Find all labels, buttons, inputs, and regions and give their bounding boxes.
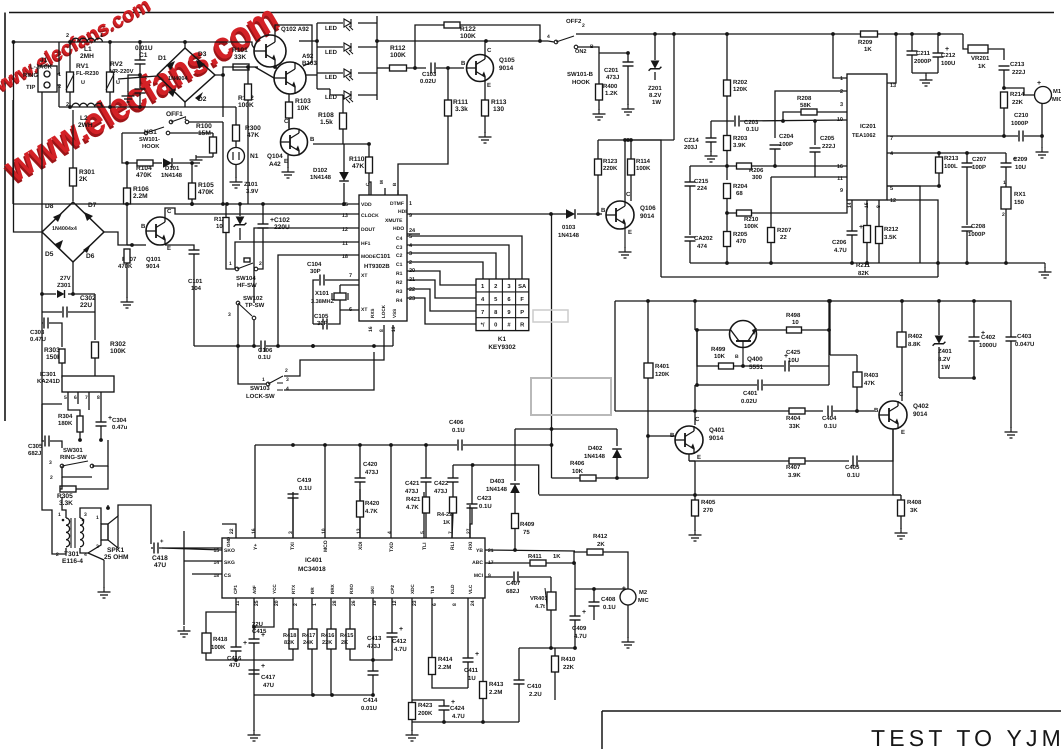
- resistor R419 2K: [346, 629, 355, 649]
- svg-text:R213: R213: [944, 155, 959, 162]
- svg-text:R407: R407: [786, 464, 801, 471]
- wire row R4: [407, 298, 476, 324]
- svg-text:SW301: SW301: [63, 447, 83, 454]
- svg-text:C410: C410: [527, 683, 542, 690]
- wire HF1 line: [235, 242, 359, 269]
- svg-text:682J: 682J: [28, 450, 41, 457]
- svg-text:2: 2: [409, 260, 412, 266]
- svg-text:4: 4: [286, 386, 289, 392]
- svg-text:11: 11: [342, 241, 348, 247]
- wire Q103 to LED rail: [306, 74, 317, 76]
- svg-text:C404: C404: [822, 415, 837, 422]
- svg-text:Z401: Z401: [938, 348, 952, 355]
- svg-text:4: 4: [547, 34, 550, 40]
- svg-text:7: 7: [448, 531, 454, 534]
- svg-text:DOUT: DOUT: [361, 227, 375, 233]
- connector J1 L-JACK: [38, 66, 57, 92]
- svg-text:4.7t: 4.7t: [535, 604, 545, 610]
- svg-text:C423: C423: [477, 495, 492, 502]
- svg-text:Z301: Z301: [57, 282, 71, 289]
- svg-text:4.7U: 4.7U: [834, 247, 847, 254]
- svg-text:K1: K1: [498, 336, 507, 343]
- svg-text:6: 6: [432, 603, 438, 606]
- ground under R423: [411, 730, 413, 735]
- svg-text:R105: R105: [198, 182, 214, 189]
- svg-text:2: 2: [285, 368, 288, 374]
- svg-text:3K: 3K: [910, 507, 918, 514]
- svg-text:11: 11: [837, 176, 843, 182]
- ground under R107: [126, 297, 128, 302]
- resistor R403 47K: [853, 372, 862, 387]
- svg-text:R205: R205: [733, 231, 748, 238]
- svg-text:1: 1: [96, 515, 99, 521]
- ground under C211/C212: [912, 72, 938, 74]
- ground under R100: [195, 155, 197, 160]
- svg-text:2: 2: [494, 283, 497, 290]
- capacitor C2: [135, 88, 146, 90]
- svg-text:R209: R209: [858, 39, 873, 46]
- svg-text:C101: C101: [188, 278, 203, 285]
- svg-text:C: C: [167, 208, 172, 215]
- wire rail x615: [614, 301, 616, 411]
- svg-text:C203: C203: [744, 119, 759, 126]
- wire col C4: [407, 236, 522, 279]
- svg-text:R412: R412: [593, 533, 608, 540]
- svg-text:47K: 47K: [864, 380, 876, 387]
- wire OFF1 down to VDD rail: [222, 122, 224, 204]
- svg-text:CLOCK: CLOCK: [361, 213, 379, 219]
- svg-text:0.47u: 0.47u: [112, 424, 128, 431]
- svg-text:23: 23: [409, 296, 415, 302]
- transistor Q400 5551: [730, 321, 757, 348]
- svg-text:HF1: HF1: [361, 241, 371, 247]
- ground under Q104: [287, 167, 289, 172]
- svg-text:C418: C418: [152, 555, 168, 562]
- svg-text:100P: 100P: [972, 164, 986, 171]
- svg-text:HOOK: HOOK: [572, 79, 591, 86]
- svg-text:3: 3: [286, 377, 289, 383]
- wire Q101 collector to CLOCK: [165, 208, 359, 217]
- svg-text:1K: 1K: [443, 520, 450, 526]
- svg-text:C425: C425: [786, 349, 801, 356]
- svg-text:5: 5: [64, 395, 67, 401]
- svg-text:R303: R303: [44, 347, 60, 354]
- svg-text:5: 5: [420, 531, 426, 534]
- svg-text:CS: CS: [224, 573, 232, 579]
- resistor R418 100K: [202, 633, 211, 653]
- svg-text:C421: C421: [405, 480, 420, 487]
- wire Q102-Q103 link: [275, 25, 312, 66]
- svg-text:2K: 2K: [597, 541, 605, 548]
- svg-text:C211: C211: [916, 50, 931, 57]
- svg-text:25 OHM: 25 OHM: [104, 554, 129, 561]
- svg-text:3.9K: 3.9K: [788, 472, 801, 479]
- svg-text:R106: R106: [133, 186, 149, 193]
- microphone M1 MIC: [1035, 87, 1052, 104]
- svg-text:100K: 100K: [460, 33, 476, 40]
- svg-text:RV1: RV1: [76, 63, 89, 70]
- svg-text:F: F: [520, 297, 524, 303]
- svg-text:R207: R207: [777, 227, 792, 234]
- svg-text:R403: R403: [864, 372, 879, 379]
- svg-text:22: 22: [409, 287, 415, 293]
- svg-text:8.2V: 8.2V: [649, 92, 661, 99]
- svg-text:D402: D402: [588, 445, 603, 452]
- svg-text:1: 1: [312, 603, 318, 606]
- svg-text:SKG: SKG: [224, 560, 235, 566]
- border frame left line: [4, 13, 6, 422]
- wire bridge1 right to OFF1: [215, 75, 223, 117]
- svg-text:C104: C104: [307, 261, 322, 268]
- diode bridge D5-D8 1N4004x4: [42, 202, 104, 262]
- wire col C1: [407, 262, 483, 279]
- svg-text:R103: R103: [295, 98, 311, 105]
- svg-text:224: 224: [697, 185, 708, 192]
- svg-text:4.7U: 4.7U: [452, 713, 465, 720]
- svg-text:ON2: ON2: [575, 49, 587, 55]
- svg-text:473J: 473J: [367, 643, 380, 650]
- wire Q400 collector: [694, 301, 696, 330]
- svg-text:20: 20: [274, 600, 280, 606]
- svg-text:SKI: SKI: [370, 586, 375, 594]
- svg-text:0.01U: 0.01U: [135, 45, 153, 52]
- svg-text:2000P: 2000P: [914, 58, 931, 65]
- wire rail y695: [254, 694, 373, 696]
- svg-text:2.2M: 2.2M: [133, 193, 148, 200]
- svg-text:RING-SW: RING-SW: [60, 454, 87, 461]
- svg-text:100K: 100K: [238, 102, 254, 109]
- svg-text:3.9K: 3.9K: [733, 142, 746, 149]
- svg-text:47U: 47U: [263, 682, 274, 689]
- svg-text:R411: R411: [528, 554, 542, 560]
- svg-text:104: 104: [191, 285, 202, 292]
- svg-text:SA: SA: [518, 283, 527, 290]
- svg-text:10: 10: [792, 319, 799, 326]
- svg-text:+: +: [475, 651, 479, 658]
- svg-text:100K: 100K: [110, 348, 126, 355]
- svg-text:R212: R212: [884, 226, 899, 233]
- wire left vertical feeder: [14, 42, 43, 232]
- svg-text:N1: N1: [250, 153, 259, 160]
- svg-text:8.2V: 8.2V: [938, 356, 950, 363]
- wire pin13 to rail: [887, 34, 896, 83]
- svg-text:YCC: YCC: [272, 584, 277, 594]
- svg-text:8: 8: [452, 603, 458, 606]
- svg-text:2: 2: [50, 475, 53, 481]
- svg-text:R302: R302: [110, 341, 126, 348]
- svg-text:22K: 22K: [1012, 99, 1024, 106]
- svg-text:1K: 1K: [864, 46, 872, 53]
- svg-text:XMUTE: XMUTE: [385, 218, 403, 224]
- diode bridge D1-D4 1N4004x4: [157, 48, 215, 102]
- svg-text:47K: 47K: [247, 132, 259, 139]
- watermark www.elecfans.com large: [0, 0, 288, 194]
- svg-text:3.38MHZ: 3.38MHZ: [311, 299, 335, 305]
- svg-text:0.1U: 0.1U: [452, 427, 465, 434]
- inductor L1 2MH: [72, 38, 80, 42]
- svg-text:0.1U: 0.1U: [603, 604, 616, 611]
- svg-text:1: 1: [409, 201, 412, 207]
- wire bottom rail y722: [412, 721, 519, 723]
- svg-text:3: 3: [49, 460, 52, 466]
- svg-text:220K: 220K: [603, 165, 618, 172]
- svg-text:KEY9302: KEY9302: [488, 344, 516, 351]
- svg-text:LOCK-SW: LOCK-SW: [246, 393, 275, 400]
- svg-text:0.1U: 0.1U: [746, 126, 759, 133]
- svg-text:47U: 47U: [154, 562, 166, 569]
- svg-text:+: +: [160, 539, 164, 545]
- svg-text:19: 19: [391, 326, 397, 332]
- svg-text:KLD: KLD: [450, 584, 455, 594]
- ground under CZ14: [710, 151, 712, 156]
- svg-text:RV2: RV2: [110, 61, 123, 68]
- svg-text:R110: R110: [349, 156, 365, 163]
- svg-text:4.7U: 4.7U: [394, 646, 407, 653]
- wire J1 TIP down x42: [41, 92, 43, 294]
- ground under C1/C2 node: [127, 91, 129, 96]
- svg-text:2K: 2K: [79, 176, 88, 183]
- svg-text:C414: C414: [363, 697, 378, 704]
- node vertical x551: [551, 214, 553, 478]
- svg-text:2: 2: [259, 261, 262, 267]
- svg-text:C210: C210: [1014, 112, 1029, 119]
- svg-text:270: 270: [703, 507, 714, 514]
- svg-text:R3: R3: [396, 289, 403, 295]
- svg-text:8.8K: 8.8K: [908, 341, 921, 348]
- svg-text:RXO: RXO: [349, 584, 354, 594]
- svg-text:IC301: IC301: [40, 371, 57, 378]
- svg-text:1: 1: [58, 512, 61, 518]
- wire y648 node: [551, 647, 575, 649]
- svg-text:CZ14: CZ14: [684, 137, 699, 144]
- switch SW102 TP-SW: [236, 301, 240, 305]
- svg-text:33K: 33K: [234, 54, 246, 61]
- ground under N1: [235, 177, 237, 182]
- ground under R405: [694, 530, 696, 535]
- svg-text:D102: D102: [313, 167, 328, 174]
- resistor R415 82K: [289, 629, 298, 649]
- svg-text:0103: 0103: [562, 224, 576, 231]
- svg-text:3.3K: 3.3K: [59, 500, 73, 507]
- svg-text:9: 9: [840, 188, 843, 194]
- wire Q104 collector: [288, 118, 290, 129]
- svg-text:RLI: RLI: [450, 541, 456, 550]
- wire y465 link: [453, 465, 539, 495]
- svg-text:12: 12: [392, 600, 398, 606]
- svg-text:C413: C413: [367, 635, 382, 642]
- svg-text:100P: 100P: [779, 141, 793, 148]
- svg-text:1.5k: 1.5k: [320, 119, 333, 126]
- wire IC401 verticals up: [222, 524, 236, 538]
- svg-text:LOCK: LOCK: [381, 304, 386, 318]
- svg-text:8: 8: [97, 395, 100, 401]
- svg-text:C206: C206: [832, 239, 847, 246]
- svg-text:MC34018: MC34018: [298, 566, 326, 573]
- svg-text:24: 24: [470, 600, 476, 606]
- svg-text:470K: 470K: [136, 172, 152, 179]
- wire y140 link: [598, 139, 674, 141]
- svg-text:MODE: MODE: [361, 254, 377, 260]
- ground under T301: [103, 560, 105, 588]
- svg-text:C3: C3: [396, 245, 403, 251]
- svg-text:R123: R123: [603, 158, 618, 165]
- wire rail y495: [539, 494, 901, 496]
- svg-text:SW103: SW103: [250, 385, 270, 392]
- varistor RV2 VR-220V: [107, 72, 114, 92]
- svg-text:M: M: [379, 180, 384, 184]
- wire Q401 base: [648, 435, 675, 437]
- svg-text:*/: */: [481, 322, 485, 329]
- svg-text:27V: 27V: [60, 275, 71, 282]
- svg-text:0.047U: 0.047U: [1015, 341, 1034, 348]
- svg-text:X101: X101: [315, 290, 330, 297]
- svg-text:5: 5: [890, 186, 893, 192]
- svg-text:16: 16: [251, 528, 257, 534]
- svg-text:Q104: Q104: [267, 153, 283, 160]
- svg-text:22: 22: [780, 234, 787, 241]
- svg-text:TIP: TIP: [26, 84, 35, 91]
- svg-text:VR-220V: VR-220V: [110, 68, 134, 75]
- svg-text:1000P: 1000P: [1011, 120, 1028, 127]
- svg-text:2: 2: [582, 23, 585, 29]
- svg-text:C102: C102: [274, 217, 290, 224]
- svg-text:R408: R408: [907, 499, 922, 506]
- svg-text:1N4004: 1N4004: [168, 76, 188, 82]
- svg-text:E116-4: E116-4: [62, 558, 83, 565]
- svg-text:18: 18: [342, 254, 348, 260]
- svg-text:9014: 9014: [640, 213, 655, 220]
- svg-text:TEA1062: TEA1062: [852, 133, 876, 139]
- svg-text:R409: R409: [520, 521, 535, 528]
- svg-text:M2: M2: [639, 589, 647, 596]
- svg-text:R210: R210: [744, 216, 759, 223]
- svg-text:R4: R4: [396, 298, 403, 304]
- svg-text:C213: C213: [1010, 61, 1025, 68]
- svg-text:21: 21: [488, 548, 494, 554]
- svg-text:Z201: Z201: [648, 85, 662, 92]
- svg-text:E: E: [901, 429, 905, 436]
- svg-text:1N4148: 1N4148: [161, 172, 183, 179]
- svg-text:22U: 22U: [80, 302, 92, 309]
- wire x674 down: [673, 34, 675, 140]
- svg-text:4.7U: 4.7U: [574, 633, 587, 640]
- IC U401 MC34018: [222, 538, 485, 598]
- svg-text:1W: 1W: [941, 364, 950, 371]
- svg-text:6: 6: [349, 307, 352, 313]
- neon lamp N1: [228, 148, 245, 165]
- wire HDI line: [407, 213, 551, 215]
- svg-text:3.5K: 3.5K: [884, 234, 897, 241]
- svg-text:0.1U: 0.1U: [299, 485, 312, 492]
- svg-text:R204: R204: [733, 183, 748, 190]
- svg-text:100K: 100K: [390, 52, 406, 59]
- wire VDD pin15: [358, 203, 360, 205]
- svg-text:LED: LED: [325, 74, 338, 81]
- svg-text:OFF1: OFF1: [166, 111, 183, 118]
- ground under R408: [900, 528, 902, 533]
- svg-text:C: C: [695, 416, 700, 423]
- svg-text:15M: 15M: [198, 130, 211, 137]
- svg-text:100K: 100K: [211, 644, 226, 651]
- svg-text:R111: R111: [453, 99, 468, 106]
- svg-text:47U: 47U: [229, 662, 240, 669]
- svg-text:Q105: Q105: [499, 57, 515, 64]
- svg-text:MIC: MIC: [1052, 96, 1061, 103]
- svg-text:XDC: XDC: [410, 584, 415, 594]
- svg-text:TXD: TXD: [389, 542, 395, 552]
- svg-text:180K: 180K: [58, 420, 73, 427]
- wire MODE line: [278, 255, 359, 346]
- svg-text:5: 5: [409, 234, 412, 240]
- svg-text:2: 2: [1002, 212, 1005, 218]
- svg-text:TP-SW: TP-SW: [245, 302, 265, 309]
- wire rail y263 right: [885, 262, 1045, 264]
- svg-text:75: 75: [523, 529, 530, 536]
- svg-text:B: B: [601, 207, 606, 214]
- svg-text:C4: C4: [396, 236, 403, 242]
- svg-text:22K: 22K: [322, 640, 332, 646]
- svg-text:XT: XT: [361, 307, 367, 313]
- wire YB line: [485, 550, 575, 551]
- svg-text:474: 474: [697, 243, 708, 250]
- svg-text:XT: XT: [361, 273, 367, 279]
- svg-text:SKO: SKO: [224, 548, 235, 554]
- svg-text:U: U: [81, 80, 85, 86]
- svg-text:HDO: HDO: [393, 226, 404, 232]
- svg-text:FL-R230: FL-R230: [76, 70, 99, 77]
- ground under M2: [627, 637, 629, 642]
- svg-text:+: +: [859, 224, 863, 231]
- resistor R417 24K: [308, 629, 317, 649]
- svg-text:R113: R113: [491, 99, 507, 106]
- svg-text:13: 13: [890, 83, 896, 89]
- svg-text:13: 13: [342, 213, 348, 219]
- wire VDD rail y204: [13, 203, 359, 205]
- svg-text:3: 3: [840, 102, 843, 108]
- svg-text:R400: R400: [603, 83, 618, 90]
- wire YCC down: [254, 598, 274, 627]
- svg-text:1K: 1K: [553, 554, 561, 560]
- svg-text:E: E: [167, 245, 171, 252]
- svg-text:C304: C304: [112, 417, 127, 424]
- svg-text:1: 1: [100, 33, 103, 39]
- svg-text:Q101: Q101: [146, 256, 161, 263]
- svg-text:B: B: [461, 60, 466, 67]
- svg-text:15: 15: [213, 548, 219, 554]
- svg-text:CP1: CP1: [233, 585, 238, 594]
- svg-text:7: 7: [890, 136, 893, 142]
- resistor R301 2K: [70, 168, 77, 186]
- svg-text:2WH: 2WH: [78, 122, 93, 129]
- svg-text:9014: 9014: [709, 435, 724, 442]
- svg-text:Q402: Q402: [913, 403, 929, 410]
- svg-text:RR: RR: [310, 587, 315, 594]
- svg-text:2MH: 2MH: [80, 53, 94, 60]
- svg-text:CP2: CP2: [390, 585, 395, 594]
- wire pin4 line: [887, 152, 1006, 154]
- svg-text:1W: 1W: [652, 99, 661, 106]
- svg-text:470K: 470K: [118, 263, 133, 270]
- svg-text:68: 68: [736, 190, 743, 197]
- svg-text:CA202: CA202: [694, 235, 713, 242]
- svg-text:R300: R300: [245, 125, 261, 132]
- svg-text:SW101-: SW101-: [139, 136, 160, 143]
- ground under M1: [1041, 136, 1043, 148]
- svg-text:C205: C205: [820, 135, 835, 142]
- svg-text:C408: C408: [601, 596, 616, 603]
- wire rail y263: [690, 262, 885, 264]
- svg-text:RXI: RXI: [468, 541, 474, 550]
